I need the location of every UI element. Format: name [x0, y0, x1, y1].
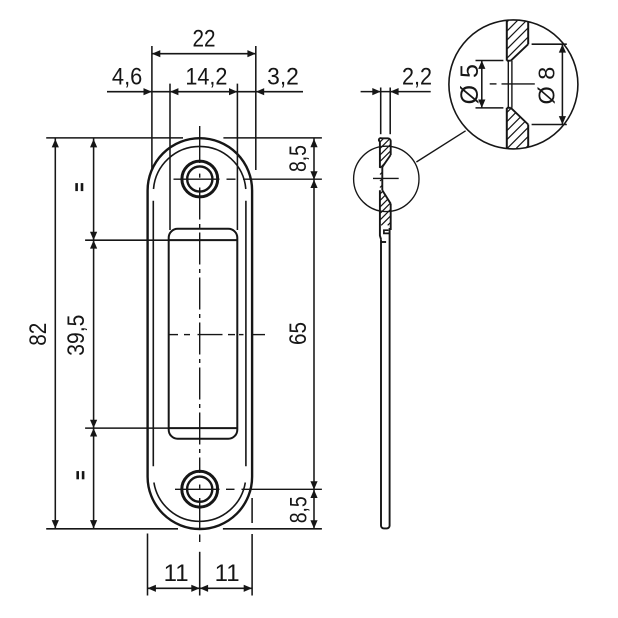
dimension 39,5 and equality segments: dimension line — [93, 138, 95, 529]
front view: bottom screw hole outer circle — [182, 471, 218, 507]
side view: hatching — [380, 139, 391, 226]
horizontal extension lines at plate bottom — [46, 528, 322, 530]
dim 22 arrows — [152, 50, 160, 57]
side view: left edge lower upper-part — [380, 190, 381, 239]
detail view: bore top edge — [507, 60, 511, 62]
front view: strike plate outer outline — [148, 138, 253, 529]
detail view: right face line lower — [527, 125, 529, 148]
front view: bottom screw hole inner circle — [187, 477, 212, 502]
side view: top cap outline — [379, 138, 391, 168]
detail view: countersink upper slope — [511, 44, 528, 61]
extension line at slot bottom left — [85, 427, 168, 429]
svg-text:4,6: 4,6 — [112, 62, 142, 89]
svg-text:22: 22 — [193, 26, 216, 53]
side view: right edge below countersink with slot step — [381, 204, 391, 529]
detail dimension D5: dimension line — [481, 61, 483, 108]
side view: step tick at slot line — [381, 241, 387, 243]
svg-text:14,2: 14,2 — [185, 62, 227, 89]
front view: inner dished edge right line — [245, 201, 247, 467]
front view: latch slot inner top edge — [169, 239, 238, 241]
svg-text:11: 11 — [215, 560, 240, 587]
svg-text:Ø 8: Ø 8 — [534, 67, 560, 105]
horizontal extension lines at plate top — [46, 137, 322, 139]
extension line at slot top left — [85, 239, 168, 241]
dim 2,2 arrows — [372, 88, 380, 95]
front view: latch slot collar rounded rectangle — [169, 229, 238, 439]
right dims arrows — [310, 139, 317, 147]
dimension 82: dimension line — [54, 138, 56, 529]
dim 39,5 and equality arrows — [90, 139, 97, 147]
svg-text:8,5: 8,5 — [285, 145, 312, 172]
dimension 22: dimension line — [152, 53, 256, 55]
svg-text:39,5: 39,5 — [63, 315, 90, 356]
svg-text:2,2: 2,2 — [402, 64, 432, 91]
side view: hole horizontal centerline — [373, 177, 399, 179]
detail D8 arrows — [559, 44, 566, 52]
detail dimension D8: dimension line — [561, 44, 563, 124]
svg-text:11: 11 — [164, 560, 189, 587]
dimension texts — [25, 26, 559, 588]
detail view: left face line lower — [506, 108, 508, 149]
detail view: bore bottom edge — [507, 107, 511, 109]
chained dim arrows — [144, 88, 152, 95]
front view: inner dished edge bottom arc — [154, 483, 245, 522]
detail view: right face line upper — [527, 21, 529, 44]
detail view: bore wall line a — [507, 61, 509, 108]
front view: top screw hole outer circle — [182, 161, 218, 197]
svg-text:Ø 5: Ø 5 — [456, 64, 484, 104]
detail view: countersink lower slope — [511, 108, 528, 125]
leader line from bubble to detail circle — [416, 131, 465, 162]
detail dimension D5: extension lines — [476, 61, 504, 108]
front view: latch slot inner bottom edge — [169, 427, 238, 429]
front view: bottom hole horizontal centerline — [175, 488, 322, 490]
svg-text:8,5: 8,5 — [286, 496, 313, 523]
detail view: hole centerline — [490, 83, 535, 85]
right dimensions 8,5 / 65 / 8,5: dimension line — [313, 138, 315, 529]
detail dimension D8: extension lines — [532, 44, 567, 124]
arrowheads — [52, 44, 566, 592]
dimension 2,2: extension lines — [381, 88, 391, 135]
detail D5 arrows — [478, 61, 485, 69]
side view: countersink lower slope — [382, 190, 391, 204]
front view: inner dished edge left line — [152, 201, 154, 467]
equality marks on 39,5 line — [75, 183, 84, 479]
front view: top screw hole inner circle — [187, 166, 212, 191]
front view: vertical centerline — [199, 126, 201, 542]
front view: top hole horizontal centerline — [174, 178, 322, 180]
chained dimensions 4,6 / 14,2 / 3,2: extension lines — [170, 84, 237, 230]
detail view: hatching — [507, 20, 528, 148]
front view: middle horizontal centerline — [169, 334, 266, 336]
dimension 2,2: dimension line — [361, 91, 431, 93]
side view: countersink upper slope — [382, 155, 390, 167]
side view: bore far wall — [381, 167, 383, 190]
detail view: left face line upper — [506, 21, 508, 61]
bottom dimensions 11/11: extension lines — [148, 498, 253, 596]
bottom 11/11 arrows — [148, 585, 156, 592]
bottom dimensions 11/11: dimension line — [148, 587, 253, 589]
svg-text:3,2: 3,2 — [267, 63, 299, 90]
dim 82 arrows — [52, 139, 59, 147]
front view: inner dished edge top arc — [154, 146, 246, 189]
svg-text:65: 65 — [285, 322, 312, 345]
side view: dished slot edge zigzag — [384, 230, 390, 233]
detail bubble circle on side view — [354, 146, 419, 211]
detail view: bore wall line b — [511, 61, 513, 108]
detail view: big circle — [449, 20, 578, 149]
svg-text:82: 82 — [25, 323, 52, 346]
chained dimensions: dimension line — [107, 91, 303, 93]
dimension 22: extension lines — [152, 46, 256, 170]
